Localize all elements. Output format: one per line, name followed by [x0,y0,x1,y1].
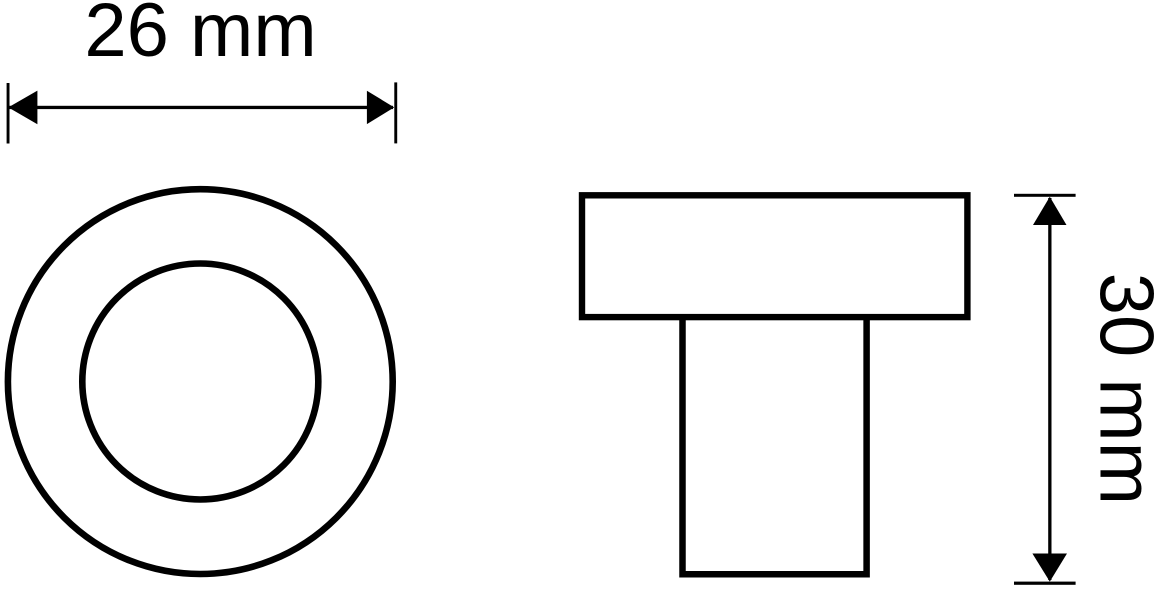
svg-text:30 mm: 30 mm [1083,273,1162,505]
svg-text:26 mm: 26 mm [84,0,316,73]
left arrowhead [8,91,37,125]
top extension tick [1014,194,1076,197]
bottom arrowhead [1032,554,1067,582]
vertical dimension line [1048,198,1051,580]
side view head rectangle [582,195,967,317]
side view stem outline [683,319,867,574]
left extension tick [7,83,10,144]
horizontal dimension line [9,106,393,109]
front view outer circle [8,189,393,574]
right extension tick [394,82,397,143]
front view inner circle [82,264,318,500]
top arrowhead [1033,197,1067,225]
bottom extension tick [1014,582,1076,585]
right arrowhead [367,91,394,124]
